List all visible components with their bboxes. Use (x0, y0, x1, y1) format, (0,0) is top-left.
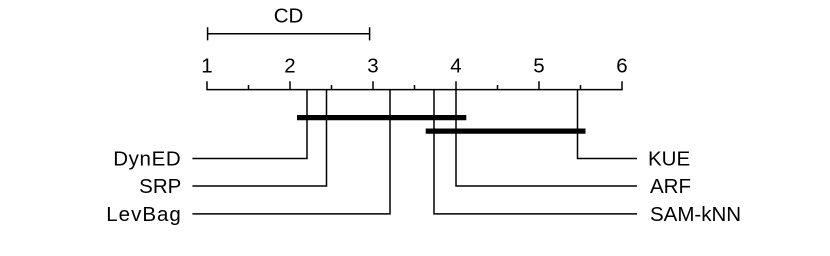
connector LevBag (192, 90, 390, 214)
svg-text:4: 4 (450, 55, 461, 78)
axis line (206, 89, 622, 91)
connector SAM-kNN (434, 90, 637, 214)
connector SRP (192, 90, 326, 186)
clique bar 1 (DynED..ARF) (297, 115, 466, 120)
svg-text:6: 6 (616, 55, 627, 78)
svg-text:KUE: KUE (648, 147, 690, 170)
svg-text:5: 5 (533, 55, 544, 78)
connector ARF (456, 90, 637, 186)
major ticks (207, 81, 622, 89)
svg-text:LevBag: LevBag (106, 203, 182, 226)
svg-text:SRP: SRP (139, 175, 181, 198)
CD bracket (208, 27, 370, 40)
svg-text:1: 1 (201, 55, 212, 78)
svg-text:2: 2 (284, 55, 295, 78)
svg-text:DynED: DynED (113, 147, 181, 170)
svg-text:CD: CD (274, 5, 304, 28)
connector DynED (192, 90, 307, 159)
svg-text:SAM-kNN: SAM-kNN (650, 203, 741, 226)
connector KUE (578, 90, 638, 159)
svg-text:3: 3 (367, 55, 378, 78)
minor ticks (249, 85, 581, 90)
clique bar 2 (SAM-kNN..KUE) (426, 129, 586, 134)
svg-text:ARF: ARF (650, 175, 691, 198)
